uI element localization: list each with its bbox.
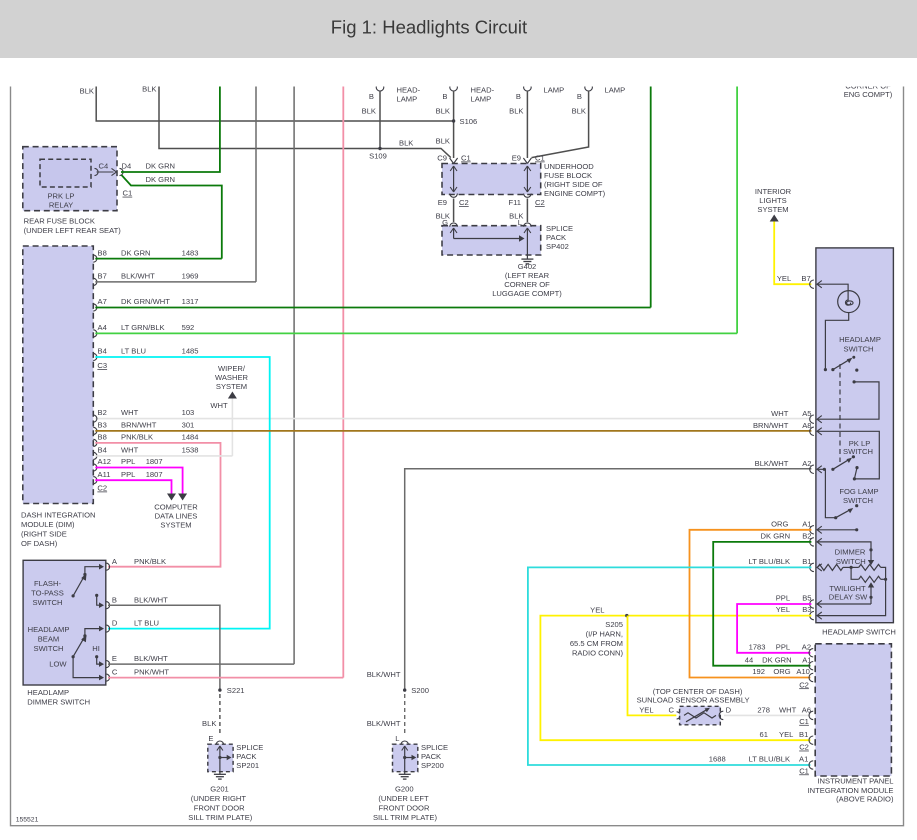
svg-text:DATA LINES: DATA LINES — [155, 512, 198, 521]
svg-text:B: B — [516, 92, 521, 101]
svg-text:44: 44 — [745, 655, 753, 664]
svg-text:HEADLAMP: HEADLAMP — [28, 625, 70, 634]
headlamp switch pin B1 arc — [810, 563, 814, 571]
twilight delay resistor — [859, 576, 881, 582]
svg-text:BRN/WHT: BRN/WHT — [121, 421, 157, 430]
svg-text:192: 192 — [752, 667, 765, 676]
svg-text:C9: C9 — [437, 154, 447, 163]
headlamp switch contacts — [824, 368, 827, 371]
wire BLK/WHT riser B7 to top — [255, 85, 257, 282]
svg-text:301: 301 — [182, 421, 195, 430]
wire DK GRN/WHT riser A7 to top — [650, 85, 652, 308]
svg-text:UNDERHOOD: UNDERHOOD — [544, 162, 594, 171]
DIM pin A12 arc — [93, 464, 97, 471]
sunload sensor assembly box — [680, 706, 721, 725]
svg-text:E9: E9 — [438, 198, 447, 207]
SP201 pin arc — [216, 741, 224, 745]
dimmer switch pin B arc — [106, 602, 110, 609]
svg-text:BRN/WHT: BRN/WHT — [753, 421, 789, 430]
IPM pin A1 arc — [809, 662, 813, 670]
svg-text:C1: C1 — [123, 189, 133, 198]
node S106 — [452, 119, 455, 122]
svg-text:DK GRN: DK GRN — [762, 655, 792, 664]
svg-text:MODULE (DIM): MODULE (DIM) — [21, 520, 75, 529]
svg-text:BLK: BLK — [436, 137, 450, 146]
wire BLK/WHT DIM B7 — [95, 281, 256, 283]
svg-text:B1: B1 — [802, 557, 811, 566]
svg-text:LAMP: LAMP — [471, 95, 492, 104]
wire BLK/WHT dashed S200 to SP200 — [404, 694, 406, 736]
svg-text:LT BLU/BLK: LT BLU/BLK — [749, 755, 791, 764]
SP200 pin arc — [401, 741, 409, 745]
wire BLK headlamp 2 vertical into fuse block pin C9 — [453, 91, 455, 158]
svg-text:LT BLU: LT BLU — [121, 347, 146, 356]
beam HI contact E wire — [95, 655, 98, 658]
wire BLK vertical to S106 line (left) — [96, 85, 453, 122]
svg-text:PACK: PACK — [236, 752, 256, 761]
wire PNK/WHT riser pin C to top — [342, 85, 344, 678]
svg-text:(UNDER RIGHT: (UNDER RIGHT — [191, 794, 247, 803]
svg-text:S106: S106 — [460, 117, 478, 126]
svg-text:PRK LP: PRK LP — [47, 192, 74, 201]
wire PPL B5 loop to IPM A2 — [737, 604, 811, 653]
flash-to-pass switch arm — [73, 578, 83, 596]
DIM pin B8b arc — [93, 439, 97, 446]
svg-text:A6: A6 — [802, 705, 811, 714]
svg-text:PACK: PACK — [546, 233, 566, 242]
flash-to-pass contact B wire — [95, 594, 98, 597]
beam contact D wire — [85, 629, 100, 636]
svg-text:G201: G201 — [210, 785, 229, 794]
svg-text:LT BLU/BLK: LT BLU/BLK — [749, 557, 791, 566]
svg-text:B4: B4 — [98, 446, 107, 455]
mechanical link dashed — [839, 364, 841, 462]
svg-text:SP201: SP201 — [236, 761, 259, 770]
svg-text:INSTRUMENT PANEL: INSTRUMENT PANEL — [817, 777, 893, 786]
pin L arc — [524, 223, 532, 227]
panel lamp symbol — [838, 291, 860, 313]
svg-text:G200: G200 — [395, 785, 414, 794]
svg-text:HEADLAMP: HEADLAMP — [839, 335, 881, 344]
splice SP402 internal right trunk to ground — [526, 228, 528, 257]
wire PPL DIM A12 to computer data lines — [95, 468, 182, 494]
svg-text:WHT: WHT — [779, 705, 797, 714]
svg-text:Fig 1: Headlights Circuit: Fig 1: Headlights Circuit — [331, 17, 527, 38]
svg-text:BLK: BLK — [202, 719, 216, 728]
wire DK GRN DIM B8 — [95, 258, 222, 260]
svg-text:SWITCH: SWITCH — [34, 644, 64, 653]
SP201 internal trunk — [219, 746, 221, 772]
arrow to interior lights system — [770, 215, 779, 222]
svg-text:65.5 CM FROM: 65.5 CM FROM — [570, 639, 623, 648]
svg-text:A1: A1 — [799, 755, 808, 764]
PRK LP relay coil box — [40, 159, 91, 187]
svg-text:SYSTEM: SYSTEM — [757, 205, 788, 214]
dimmer rheostat feed from B2 — [817, 542, 871, 562]
headlamp switch pin A8 arc — [810, 427, 814, 435]
svg-text:D: D — [726, 705, 732, 714]
svg-text:B8: B8 — [98, 249, 107, 258]
dimmer switch pin A arc — [106, 563, 110, 570]
svg-text:FOG LAMP: FOG LAMP — [839, 487, 878, 496]
svg-text:WASHER: WASHER — [215, 373, 249, 382]
splice pack SP201 box — [208, 744, 233, 772]
svg-text:SPLICE: SPLICE — [236, 743, 263, 752]
wire BLK/WHT headlamp switch A2 with riser to S200 — [405, 469, 812, 690]
svg-text:B7: B7 — [801, 274, 810, 283]
svg-text:(UNDER LEFT REAR SEAT): (UNDER LEFT REAR SEAT) — [24, 226, 122, 235]
headlamp dimmer switch box — [23, 560, 106, 685]
svg-text:TO-PASS: TO-PASS — [31, 589, 64, 598]
svg-text:DK GRN: DK GRN — [761, 532, 791, 541]
connector circle park lamp 2 — [585, 83, 593, 91]
svg-text:1485: 1485 — [182, 347, 199, 356]
svg-text:(UNDER LEFT: (UNDER LEFT — [378, 794, 429, 803]
connector circle headlamp 2 — [450, 83, 458, 91]
top edge clip (page cut) — [0, 58, 917, 87]
svg-text:C2: C2 — [535, 198, 545, 207]
svg-text:LUGGAGE COMPT): LUGGAGE COMPT) — [492, 289, 562, 298]
DIM pin B2 arc — [93, 415, 97, 422]
svg-text:A1: A1 — [802, 655, 811, 664]
pin E9 bottom arc — [450, 194, 458, 198]
DIM pin A11 arc — [93, 477, 97, 484]
wire BLK park lamp 1 vertical into fuse block pin E9 — [526, 91, 528, 158]
svg-text:B8: B8 — [98, 433, 107, 442]
wire WHT DIM B2 to headlamp switch A5 — [95, 418, 811, 420]
svg-text:S221: S221 — [227, 686, 245, 695]
svg-text:E: E — [112, 654, 117, 663]
wire headlamp switch to pin A5 — [817, 382, 879, 419]
DIM pin B4 arc — [93, 353, 97, 360]
wire DK GRN from D4 up to top — [121, 85, 220, 173]
connector circle park lamp 1 — [524, 83, 532, 91]
svg-text:C1: C1 — [799, 717, 809, 726]
svg-text:B3: B3 — [98, 421, 107, 430]
svg-text:LIGHTS: LIGHTS — [759, 196, 786, 205]
headlamp switch pin B2 arc — [810, 538, 814, 546]
svg-text:A10: A10 — [796, 667, 810, 676]
wire WHT DIM B4 to wiper riser — [95, 455, 232, 457]
svg-text:DK GRN: DK GRN — [121, 249, 151, 258]
svg-text:BEAM: BEAM — [38, 635, 60, 644]
svg-text:(I/P HARN,: (I/P HARN, — [586, 630, 623, 639]
headlamp switch pin B3 arc — [810, 611, 814, 619]
wire WHT sensor D to IPM A6 — [724, 714, 810, 716]
svg-text:SWITCH: SWITCH — [843, 447, 873, 456]
wire WHT riser to wiper washer — [231, 399, 233, 456]
fuse path right (double arrow) — [526, 166, 528, 192]
svg-text:YEL: YEL — [590, 606, 604, 615]
headlamp switch pin A1 arc — [810, 526, 814, 534]
svg-text:C4: C4 — [99, 162, 109, 171]
svg-text:C2: C2 — [97, 484, 107, 493]
svg-text:WIPER/: WIPER/ — [218, 364, 246, 373]
svg-text:SWITCH: SWITCH — [844, 345, 874, 354]
svg-text:YEL: YEL — [779, 730, 793, 739]
svg-text:SP200: SP200 — [421, 761, 444, 770]
svg-text:A5: A5 — [802, 409, 811, 418]
wire BLK vertical to S109 line (left) — [159, 85, 451, 158]
wire BLK headlamp 1 vertical — [379, 91, 381, 149]
wire BLK/WHT pin B to S221 — [108, 605, 220, 689]
svg-text:C2: C2 — [799, 680, 809, 689]
arrow PPL A12 down — [178, 494, 187, 501]
sunload sensor pin C arc — [677, 712, 681, 719]
svg-text:BLK/WHT: BLK/WHT — [121, 272, 155, 281]
twilight delay wiper arrow — [868, 582, 874, 587]
svg-text:C3: C3 — [97, 361, 107, 370]
svg-text:SWITCH: SWITCH — [33, 598, 63, 607]
svg-text:YEL: YEL — [639, 705, 653, 714]
svg-text:278: 278 — [757, 705, 770, 714]
PK LP switch contacts and arm — [823, 468, 826, 471]
wire DK GRN B2 loop to IPM A1 — [713, 542, 811, 666]
svg-text:PNK/BLK: PNK/BLK — [134, 557, 166, 566]
wire BLK G to splice pack — [453, 199, 455, 223]
svg-text:B7: B7 — [98, 272, 107, 281]
svg-text:DELAY SW: DELAY SW — [829, 592, 868, 601]
IPM pin A2 arc — [809, 649, 813, 657]
svg-text:ENGINE COMPT): ENGINE COMPT) — [544, 189, 606, 198]
svg-text:D4: D4 — [122, 162, 132, 171]
node S109 — [378, 147, 381, 150]
svg-text:61: 61 — [760, 730, 768, 739]
wire PNK/WHT pin C riser — [108, 677, 343, 679]
svg-text:PACK: PACK — [421, 752, 441, 761]
svg-text:PPL: PPL — [121, 457, 135, 466]
svg-text:BLK/WHT: BLK/WHT — [367, 670, 401, 679]
svg-text:ORG: ORG — [771, 519, 788, 528]
sunload sensor pin D arc — [719, 711, 723, 719]
svg-text:RELAY: RELAY — [49, 201, 73, 210]
wire PPL DIM A11 to computer data lines — [95, 480, 171, 493]
svg-text:G402: G402 — [518, 262, 537, 271]
pin E9 entry — [523, 158, 531, 164]
svg-text:C: C — [112, 668, 118, 677]
wire DK GRN/WHT DIM A7 — [95, 307, 650, 309]
DIM pin A7 arc — [93, 304, 97, 311]
flash-to-pass contact A wire — [85, 567, 100, 575]
relay pin C4 arc and arrow to D4 — [95, 168, 99, 175]
svg-text:ORG: ORG — [773, 667, 790, 676]
svg-text:A2: A2 — [802, 459, 811, 468]
splice pack SP200 box — [393, 744, 418, 772]
svg-text:L: L — [395, 734, 399, 743]
dimmer resistor 1 — [818, 564, 844, 570]
dimmer resistor 2 (rheostat) — [843, 566, 851, 568]
wire YEL S205 branch to sunload sensor C — [628, 616, 677, 716]
dash integration module (DIM) box — [23, 246, 94, 504]
wire DK GRN from C1 down to DIM B8 — [122, 175, 222, 259]
svg-text:INTERIOR: INTERIOR — [755, 187, 792, 196]
DIM pin B7 arc — [93, 278, 97, 285]
headlamp switch pin A2 arc — [810, 465, 814, 473]
wire BRN/WHT DIM B3 to headlamp switch A8 — [95, 430, 811, 432]
svg-text:WHT: WHT — [771, 409, 789, 418]
svg-text:A4: A4 — [98, 323, 107, 332]
svg-text:HEAD-: HEAD- — [471, 86, 495, 95]
svg-text:C1: C1 — [461, 154, 471, 163]
svg-text:BLK/WHT: BLK/WHT — [134, 595, 168, 604]
svg-text:C2: C2 — [459, 198, 469, 207]
pin F11 bottom arc — [524, 194, 532, 198]
svg-text:LAMP: LAMP — [397, 95, 418, 104]
wire LT BLU/BLK B1 loop to IPM A1 — [528, 567, 812, 765]
svg-text:(RIGHT SIDE OF: (RIGHT SIDE OF — [544, 180, 603, 189]
wire A2 common to fog lamp switch — [817, 469, 836, 517]
headlamp beam switch arm — [73, 639, 83, 657]
svg-text:COMPUTER: COMPUTER — [154, 503, 198, 512]
svg-text:(ABOVE RADIO): (ABOVE RADIO) — [836, 795, 894, 804]
svg-text:HI: HI — [92, 644, 100, 653]
svg-text:B3: B3 — [802, 605, 811, 614]
DIM pin B3 arc — [93, 427, 97, 434]
svg-text:PPL: PPL — [776, 594, 790, 603]
node S205 — [625, 614, 628, 617]
wire B3 to resistor right end — [817, 579, 886, 615]
svg-text:SPLICE: SPLICE — [546, 224, 573, 233]
node S200 — [403, 688, 406, 691]
wire pin A1 to fog contact — [817, 529, 857, 531]
svg-text:REAR FUSE BLOCK: REAR FUSE BLOCK — [24, 217, 95, 226]
svg-text:SYSTEM: SYSTEM — [216, 382, 247, 391]
svg-text:F11: F11 — [508, 198, 521, 207]
arrow to wiper/washer system — [228, 392, 237, 399]
svg-text:SWITCH: SWITCH — [843, 496, 873, 505]
headlamp switch pin B5 arc — [810, 600, 814, 608]
svg-text:PPL: PPL — [121, 470, 135, 479]
svg-text:PNK/BLK: PNK/BLK — [121, 433, 153, 442]
svg-text:LT BLU: LT BLU — [134, 618, 159, 627]
svg-text:SUNLOAD SENSOR ASSEMBLY: SUNLOAD SENSOR ASSEMBLY — [637, 696, 750, 705]
svg-text:1688: 1688 — [709, 755, 726, 764]
wire lamp to headlamp switch common — [825, 313, 848, 370]
wire to panel lamp — [817, 284, 848, 290]
svg-text:S109: S109 — [369, 152, 387, 161]
svg-text:C: C — [669, 705, 675, 714]
svg-text:103: 103 — [182, 408, 195, 417]
pin C9 entry — [450, 158, 458, 164]
svg-text:1807: 1807 — [146, 457, 163, 466]
svg-text:1969: 1969 — [182, 272, 199, 281]
svg-text:A: A — [112, 557, 118, 566]
svg-text:B: B — [577, 92, 582, 101]
svg-text:B4: B4 — [98, 347, 107, 356]
rear fuse block box — [23, 147, 117, 211]
IPM pin A1b arc — [809, 761, 813, 769]
svg-text:BLK: BLK — [80, 87, 94, 96]
svg-text:HEADLAMP: HEADLAMP — [27, 688, 69, 697]
svg-text:SYSTEM: SYSTEM — [160, 521, 191, 530]
svg-text:SILL TRIM PLATE): SILL TRIM PLATE) — [373, 813, 437, 822]
svg-text:592: 592 — [182, 323, 195, 332]
svg-text:B2: B2 — [802, 532, 811, 541]
splice pack SP402 box — [442, 226, 541, 255]
svg-text:FUSE BLOCK: FUSE BLOCK — [544, 171, 592, 180]
svg-text:B: B — [112, 595, 117, 604]
svg-text:(RIGHT SIDE: (RIGHT SIDE — [21, 530, 67, 539]
svg-text:RADIO CONN): RADIO CONN) — [572, 649, 624, 658]
svg-text:D: D — [112, 618, 118, 627]
svg-text:C2: C2 — [799, 743, 809, 752]
wire LT GRN/BLK DIM A4 — [95, 332, 737, 334]
dimmer switch pin C arc — [106, 674, 110, 681]
svg-text:1483: 1483 — [182, 249, 199, 258]
svg-text:SILL TRIM PLATE): SILL TRIM PLATE) — [188, 813, 252, 822]
svg-text:BLK: BLK — [399, 139, 413, 148]
svg-text:PPL: PPL — [776, 643, 790, 652]
svg-text:A12: A12 — [98, 457, 112, 466]
wire PNK/BLK DIM B8 to flash-to-pass A — [95, 443, 220, 567]
svg-text:1484: 1484 — [182, 433, 199, 442]
instrument panel integration module box — [815, 644, 891, 776]
fuse path left (double arrow) — [453, 166, 455, 192]
wire BLK park lamp 2 vertical with diagonal into pin E9 — [532, 91, 589, 158]
svg-text:DIMMER: DIMMER — [835, 548, 866, 557]
svg-text:DK GRN/WHT: DK GRN/WHT — [121, 297, 170, 306]
svg-text:1538: 1538 — [182, 446, 199, 455]
svg-text:B5: B5 — [802, 594, 811, 603]
svg-text:(TOP CENTER OF DASH): (TOP CENTER OF DASH) — [653, 687, 743, 696]
svg-text:SPLICE: SPLICE — [421, 743, 448, 752]
wire B5 to wiper — [817, 603, 871, 605]
svg-text:OF DASH): OF DASH) — [21, 539, 58, 548]
svg-text:YEL: YEL — [776, 605, 790, 614]
sunload sensor photoresistor — [684, 713, 716, 718]
svg-text:BLK: BLK — [509, 107, 523, 116]
svg-text:BLK/WHT: BLK/WHT — [367, 719, 401, 728]
underhood fuse block box — [442, 164, 541, 195]
svg-text:BLK: BLK — [362, 107, 376, 116]
svg-text:1783: 1783 — [749, 643, 766, 652]
svg-text:WHT: WHT — [210, 401, 228, 410]
svg-text:BLK: BLK — [572, 107, 586, 116]
svg-text:PNK/WHT: PNK/WHT — [134, 668, 169, 677]
DIM pin B8 arc — [93, 255, 97, 262]
wire headlamp switch pin A8 loop to PK LP contact — [817, 431, 879, 479]
wire BLK dashed S221 to SP201 — [219, 694, 221, 736]
beam common to pin C wire — [73, 657, 100, 678]
svg-text:DIMMER SWITCH: DIMMER SWITCH — [27, 698, 90, 707]
headlamp switch pin B7 arc — [810, 280, 814, 288]
svg-text:FLASH-: FLASH- — [34, 579, 61, 588]
dimmer switch pin E arc — [106, 661, 110, 668]
pin G arc — [450, 223, 458, 227]
svg-text:WHT: WHT — [121, 446, 139, 455]
svg-text:1807: 1807 — [146, 470, 163, 479]
wire BLK/WHT riser pin E to top — [293, 85, 295, 665]
IPM pin A10 arc — [809, 673, 813, 681]
svg-text:LAMP: LAMP — [544, 86, 565, 95]
svg-text:DK GRN: DK GRN — [146, 175, 176, 184]
svg-text:B: B — [369, 92, 374, 101]
svg-text:BLK/WHT: BLK/WHT — [755, 459, 789, 468]
svg-text:CORNER OF: CORNER OF — [504, 280, 550, 289]
svg-text:155521: 155521 — [16, 816, 39, 823]
node S221 — [218, 688, 221, 691]
svg-text:S205: S205 — [605, 620, 623, 629]
SP200 internal trunk — [404, 746, 406, 772]
svg-text:E: E — [208, 734, 213, 743]
svg-text:HEADLAMP SWITCH: HEADLAMP SWITCH — [822, 627, 896, 636]
svg-text:B: B — [442, 92, 447, 101]
IPM pin B1 arc — [809, 736, 813, 744]
connector circle headlamp 1 — [376, 83, 384, 91]
ground G402 — [526, 257, 528, 260]
wire BLK/WHT pin E riser — [108, 663, 294, 665]
svg-text:1317: 1317 — [182, 297, 199, 306]
